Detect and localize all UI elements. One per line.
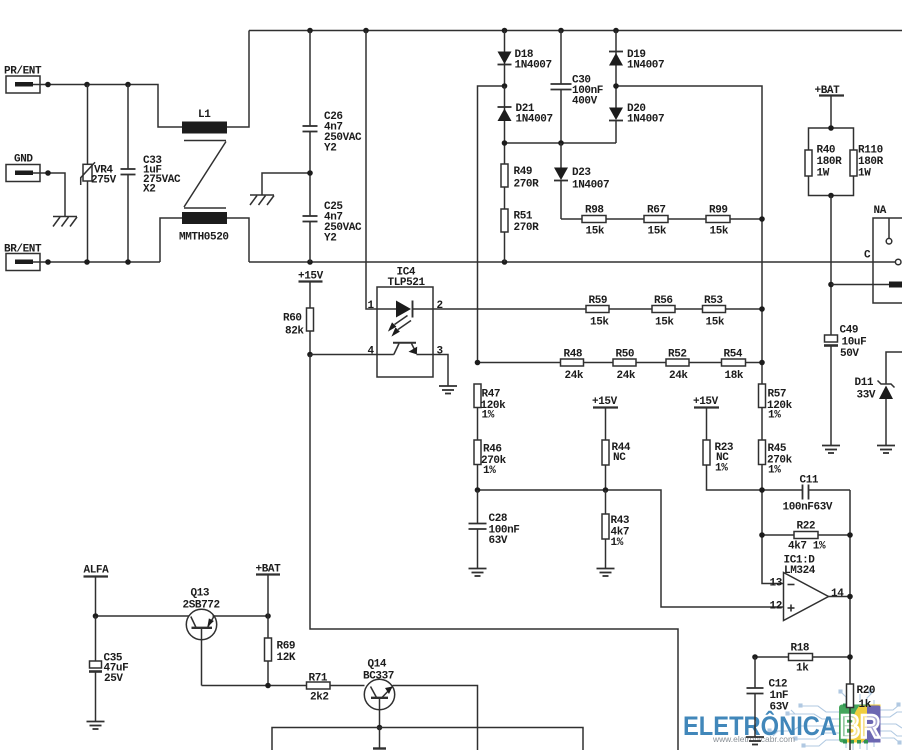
svg-text:1%: 1% bbox=[768, 410, 781, 422]
wire D23 to R98 row bbox=[561, 218, 762, 220]
svg-text:1N4007: 1N4007 bbox=[516, 114, 553, 126]
svg-text:24k: 24k bbox=[617, 370, 636, 382]
svg-text:270R: 270R bbox=[514, 179, 540, 191]
wire IC4 pin3 to ground bbox=[433, 355, 448, 387]
resistor R22 bbox=[759, 521, 853, 553]
svg-text:1N4007: 1N4007 bbox=[572, 180, 609, 192]
svg-text:15k: 15k bbox=[590, 317, 609, 329]
svg-text:18k: 18k bbox=[725, 370, 744, 382]
svg-text:50V: 50V bbox=[840, 348, 859, 360]
svg-text:270R: 270R bbox=[514, 222, 540, 234]
resistor R48 bbox=[561, 349, 584, 383]
diode D23 bbox=[554, 143, 609, 219]
svg-text:1%: 1% bbox=[768, 465, 781, 477]
resistor R60 bbox=[283, 308, 314, 355]
svg-text:R52: R52 bbox=[668, 349, 687, 361]
relay coil bar bbox=[889, 282, 902, 288]
capacitor C25 bbox=[303, 173, 363, 262]
wire Q13 base row bbox=[202, 683, 307, 689]
node Q14 base on box edge bbox=[377, 725, 383, 731]
svg-text:R48: R48 bbox=[564, 349, 583, 361]
watermark eletronicabr logo chip body bbox=[839, 704, 881, 744]
resistor R54 bbox=[722, 349, 746, 383]
diode D18 bbox=[498, 31, 552, 87]
svg-text:1nF: 1nF bbox=[770, 690, 789, 702]
svg-text:4k7 1%: 4k7 1% bbox=[788, 541, 826, 553]
resistor R56 bbox=[652, 295, 675, 329]
svg-text:R67: R67 bbox=[647, 205, 666, 217]
svg-text:1N4007: 1N4007 bbox=[627, 60, 664, 72]
svg-text:12K: 12K bbox=[277, 652, 296, 664]
svg-text:C11: C11 bbox=[800, 475, 819, 487]
ground under R43 bbox=[597, 569, 615, 577]
svg-text:15k: 15k bbox=[710, 226, 729, 238]
capacitor C33 bbox=[121, 85, 182, 263]
svg-text:10uF: 10uF bbox=[842, 337, 867, 349]
wire Q13 emitter to +BAT node bbox=[213, 613, 271, 619]
ground under C28 bbox=[469, 569, 487, 577]
connector BR/ENT bbox=[4, 244, 42, 271]
ground under C35 bbox=[87, 722, 105, 730]
wire D18 cathode to R48 node (long drop) bbox=[478, 83, 508, 362]
box bottom block (cut off) bbox=[272, 728, 583, 750]
optocoupler IC4 TLP521 bbox=[368, 267, 444, 378]
svg-text:NC: NC bbox=[613, 452, 626, 464]
wire L1 top winding to top rail bbox=[227, 31, 249, 128]
power +15V above R44 bbox=[592, 396, 618, 440]
relay contact box NA bbox=[864, 205, 902, 303]
wire GND terminal to chassis ground bbox=[40, 170, 65, 216]
wire L1 bottom winding right down to lower rail bbox=[227, 218, 249, 262]
resistor R110 bbox=[850, 145, 884, 180]
node R60 bottom bbox=[307, 352, 313, 358]
resistor R50 bbox=[613, 349, 636, 383]
svg-text:1: 1 bbox=[368, 300, 375, 312]
svg-text:4: 4 bbox=[368, 346, 375, 358]
resistor R20 bbox=[847, 684, 876, 750]
op-amp IC1:D LM324 bbox=[770, 555, 845, 621]
resistor R69 bbox=[265, 616, 296, 686]
diode D20 bbox=[609, 86, 664, 143]
resistor R71 bbox=[307, 673, 365, 704]
wire R23 bottom to feedback column bbox=[707, 465, 763, 490]
wire IC4 pin1 from top rail bbox=[366, 31, 377, 310]
svg-text:R49: R49 bbox=[514, 166, 533, 178]
watermark eletronicabr logo chip traces bbox=[768, 690, 902, 750]
ground IC4 pin3 bbox=[439, 386, 457, 394]
svg-text:63V: 63V bbox=[770, 702, 789, 714]
svg-text:1%: 1% bbox=[483, 465, 496, 477]
wire Q14 base stub to ground (cut) bbox=[373, 728, 386, 749]
svg-text:C: C bbox=[864, 250, 871, 262]
svg-text:100nF63V: 100nF63V bbox=[783, 502, 833, 514]
svg-text:D23: D23 bbox=[572, 167, 591, 179]
resistor R44 bbox=[602, 440, 631, 490]
wire summing node row to op-amp pin 12 bbox=[475, 487, 784, 607]
wire node to relay coil bbox=[831, 284, 889, 286]
svg-text:R59: R59 bbox=[589, 295, 608, 307]
wire IC4 pin2 row bbox=[433, 308, 762, 310]
svg-text:BR: BR bbox=[840, 709, 880, 745]
svg-text:33V: 33V bbox=[857, 390, 876, 402]
svg-text:R40: R40 bbox=[817, 145, 836, 157]
transistor Q13 2SB772 bbox=[183, 588, 220, 686]
svg-text:R50: R50 bbox=[616, 349, 635, 361]
wire C26 C25 midpoint to chassis ground bbox=[262, 170, 313, 195]
wire R40 box down to C49 bbox=[828, 196, 834, 336]
svg-text:MMTH0520: MMTH0520 bbox=[179, 232, 229, 244]
resistor R43 bbox=[602, 490, 630, 569]
svg-text:R45: R45 bbox=[768, 443, 787, 455]
wire ALFA node row to Q13 bbox=[93, 613, 193, 619]
node R99 to column bbox=[759, 216, 765, 222]
ground under C12 bbox=[746, 737, 764, 745]
svg-text:Y2: Y2 bbox=[324, 233, 336, 245]
wire BR/ENT rail left bbox=[40, 259, 160, 265]
resistor R59 bbox=[586, 295, 609, 329]
svg-text:Q13: Q13 bbox=[191, 588, 210, 600]
node R53 to column bbox=[759, 306, 765, 312]
svg-text:R56: R56 bbox=[654, 295, 673, 307]
svg-text:3: 3 bbox=[437, 346, 444, 358]
svg-text:15k: 15k bbox=[586, 226, 605, 238]
capacitor C11 bbox=[759, 475, 850, 514]
svg-text:1k: 1k bbox=[796, 663, 809, 675]
capacitor C35 electrolytic bbox=[89, 616, 128, 722]
svg-text:15k: 15k bbox=[655, 317, 674, 329]
resistor R52 bbox=[666, 349, 689, 383]
svg-text:13: 13 bbox=[770, 578, 783, 590]
capacitor C28 bbox=[469, 490, 520, 569]
svg-text:R57: R57 bbox=[768, 389, 787, 401]
connector GND bbox=[6, 154, 40, 182]
power +15V above R60 bbox=[298, 271, 324, 309]
resistor R23 bbox=[703, 440, 734, 475]
wire top rail bbox=[249, 28, 902, 34]
transistor Q14 BC337 bbox=[363, 659, 395, 728]
svg-text:R99: R99 bbox=[709, 205, 728, 217]
svg-text:R110: R110 bbox=[858, 145, 883, 157]
svg-text:C12: C12 bbox=[769, 679, 788, 691]
wire Q14 emitter to off-page column bbox=[393, 686, 478, 750]
wire PR/ENT rail to L1 bbox=[40, 82, 182, 127]
svg-text:63V: 63V bbox=[489, 535, 508, 547]
svg-text:25V: 25V bbox=[104, 673, 123, 685]
svg-text:R43: R43 bbox=[611, 515, 630, 527]
svg-text:12: 12 bbox=[770, 601, 782, 613]
resistor R51 bbox=[501, 187, 539, 262]
wire L1 bottom winding left to BR rail bbox=[160, 218, 182, 262]
svg-text:Y2: Y2 bbox=[324, 143, 336, 155]
power +15V above R23 bbox=[693, 396, 719, 440]
ground under C49 bbox=[822, 446, 840, 454]
resistor R47 bbox=[474, 384, 506, 422]
svg-text:1N4007: 1N4007 bbox=[515, 60, 552, 72]
svg-text:R51: R51 bbox=[514, 211, 533, 223]
svg-text:1%: 1% bbox=[482, 410, 495, 422]
diode D21 bbox=[498, 86, 553, 143]
svg-text:180R: 180R bbox=[858, 156, 884, 168]
power +BAT above R40 R110 bbox=[815, 85, 845, 128]
svg-text:R18: R18 bbox=[791, 643, 810, 655]
varistor VR4 bbox=[81, 85, 117, 263]
ground chassis near L1 bbox=[250, 195, 274, 205]
resistor R18 bbox=[752, 643, 853, 675]
resistor pair R40 R110 box bbox=[809, 125, 854, 198]
wire op-amp output column bbox=[849, 490, 851, 684]
svg-text:NA: NA bbox=[874, 205, 887, 217]
svg-text:Q14: Q14 bbox=[368, 659, 387, 671]
power ALFA bbox=[84, 565, 110, 617]
svg-text:24k: 24k bbox=[565, 370, 584, 382]
connector PR/ENT bbox=[4, 66, 42, 94]
svg-text:14: 14 bbox=[831, 588, 844, 600]
svg-text:1%: 1% bbox=[611, 537, 624, 549]
svg-text:C49: C49 bbox=[840, 325, 859, 337]
diode D19 bbox=[609, 31, 664, 87]
svg-text:D11: D11 bbox=[855, 377, 874, 389]
svg-text:1%: 1% bbox=[715, 463, 728, 475]
svg-text:X2: X2 bbox=[143, 184, 155, 196]
svg-text:1N4007: 1N4007 bbox=[627, 114, 664, 126]
wire op-amp output pin14 bbox=[829, 594, 853, 600]
resistor R53 bbox=[703, 295, 726, 329]
resistor R45 bbox=[759, 440, 793, 477]
capacitor C26 bbox=[303, 31, 363, 174]
svg-text:275V: 275V bbox=[91, 175, 117, 187]
zener diode D11 bbox=[855, 352, 902, 446]
svg-text:ALFA: ALFA bbox=[84, 565, 110, 577]
svg-text:2: 2 bbox=[437, 300, 443, 312]
svg-text:R54: R54 bbox=[724, 349, 743, 361]
svg-text:15k: 15k bbox=[706, 317, 725, 329]
resistor R98 bbox=[582, 205, 606, 238]
svg-text:15k: 15k bbox=[648, 226, 667, 238]
svg-text:1k: 1k bbox=[859, 699, 872, 711]
svg-text:R47: R47 bbox=[482, 389, 501, 401]
svg-text:R53: R53 bbox=[704, 295, 723, 307]
resistor R49 bbox=[501, 143, 539, 191]
resistor R99 bbox=[706, 205, 730, 238]
svg-text:R46: R46 bbox=[483, 444, 502, 456]
svg-text:GND: GND bbox=[14, 154, 33, 166]
wire R60 node down and right (off page) bbox=[310, 355, 678, 750]
svg-text:82k: 82k bbox=[285, 326, 304, 338]
svg-text:R98: R98 bbox=[585, 205, 604, 217]
svg-text:180R: 180R bbox=[817, 156, 843, 168]
wire R60 node to IC4 pin4 bbox=[310, 354, 394, 356]
svg-text:C28: C28 bbox=[489, 513, 508, 525]
svg-text:R60: R60 bbox=[283, 313, 302, 325]
svg-text:L1: L1 bbox=[198, 109, 211, 121]
power +BAT above R69 bbox=[256, 564, 282, 617]
resistor R40 bbox=[805, 145, 842, 180]
svg-text:+15V: +15V bbox=[693, 396, 719, 408]
wire D19 anode to feedback column bbox=[613, 83, 783, 583]
svg-text:R20: R20 bbox=[857, 685, 876, 697]
svg-text:400V: 400V bbox=[572, 96, 598, 108]
capacitor C49 electrolytic bbox=[824, 325, 866, 446]
capacitor C12 bbox=[747, 657, 789, 737]
wire R48 row bbox=[475, 360, 765, 366]
inductor L1 common mode choke bbox=[179, 109, 229, 244]
svg-text:1W: 1W bbox=[817, 168, 830, 180]
ground under D11 bbox=[877, 446, 895, 454]
resistor R57 bbox=[759, 384, 793, 422]
svg-text:+15V: +15V bbox=[592, 396, 618, 408]
resistor R46 bbox=[474, 408, 507, 491]
svg-text:1W: 1W bbox=[858, 168, 871, 180]
svg-text:R22: R22 bbox=[797, 521, 816, 533]
svg-text:2k2: 2k2 bbox=[310, 692, 329, 704]
svg-text:24k: 24k bbox=[669, 370, 688, 382]
svg-text:R71: R71 bbox=[309, 673, 328, 685]
capacitor C30 bbox=[551, 31, 604, 144]
svg-text:www.eletronicabr.com: www.eletronicabr.com bbox=[712, 734, 795, 744]
wire D21 anode row bbox=[502, 140, 616, 146]
svg-text:R69: R69 bbox=[277, 641, 296, 653]
ground chassis at GND terminal bbox=[53, 217, 77, 227]
wire lower mains rail to relay common bbox=[249, 259, 895, 265]
resistor R67 bbox=[644, 205, 668, 238]
